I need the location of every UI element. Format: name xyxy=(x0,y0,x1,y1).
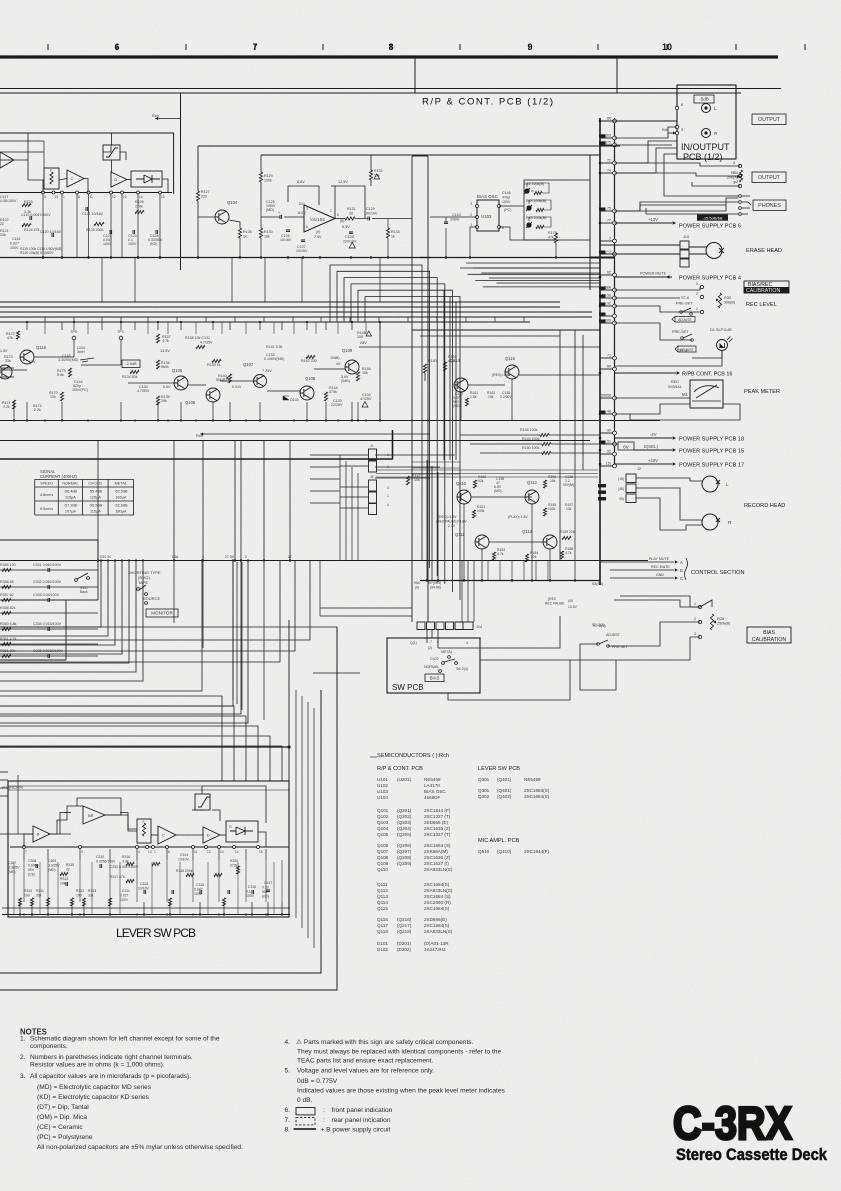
svg-text:R130: R130 xyxy=(264,230,273,234)
svg-text:R127: R127 xyxy=(201,190,210,194)
pin 5 xyxy=(675,125,678,128)
svg-text:(D)A01-13R: (D)A01-13R xyxy=(424,941,449,946)
svg-text:IN/OUTPUT: IN/OUTPUT xyxy=(681,142,730,152)
svg-text:Q114: Q114 xyxy=(377,900,388,905)
svg-text:52: 52 xyxy=(607,450,611,454)
wire +23V PS17 xyxy=(615,463,673,465)
capacitor C127 10/16V xyxy=(301,240,305,242)
wire from block to U102 xyxy=(198,145,620,147)
capacitor C119 0.0047/100V xyxy=(30,216,32,220)
svg-text:Q110: Q110 xyxy=(377,867,388,872)
svg-text:Q108: Q108 xyxy=(305,376,316,381)
diode box G lever xyxy=(226,821,258,842)
pin rail left block xyxy=(0,192,172,194)
svg-text:10/10V: 10/10V xyxy=(178,858,189,862)
svg-text:2: 2 xyxy=(609,237,611,241)
svg-text:0.0056: 0.0056 xyxy=(28,864,38,868)
svg-text:2SC1844 (F): 2SC1844 (F) xyxy=(424,808,451,813)
svg-text:(Q217): (Q217) xyxy=(397,923,412,928)
wire y673 right xyxy=(313,672,360,674)
svg-text:9/7(9R0): 9/7(9R0) xyxy=(428,581,441,585)
svg-text::: : xyxy=(323,1107,325,1114)
svg-text:BR: BR xyxy=(88,813,94,818)
junction dots rail 560 nest xyxy=(100,559,102,561)
svg-text:12.5V: 12.5V xyxy=(338,180,348,184)
svg-text:15k: 15k xyxy=(362,371,368,375)
svg-text:4: 4 xyxy=(387,503,389,507)
pin 3 xyxy=(675,131,678,134)
svg-text:TP1: TP1 xyxy=(117,330,124,334)
U103 cluster wires xyxy=(499,205,524,207)
svg-text:NORMAL: NORMAL xyxy=(424,665,439,669)
svg-text:2.2/50V: 2.2/50V xyxy=(500,395,512,399)
svg-text:Q302: Q302 xyxy=(478,794,490,799)
svg-text:Resistor values are in ohms (k: Resistor values are in ohms (k = 1,000 o… xyxy=(30,1062,165,1069)
svg-text:(Q402): (Q402) xyxy=(497,794,512,799)
svg-text:-57.2dB: -57.2dB xyxy=(64,504,78,508)
bus pin 66 xyxy=(600,120,613,122)
capacitor C124 0.33/50V xyxy=(156,230,158,234)
svg-text:F: F xyxy=(143,820,145,824)
bus pin 6289 xyxy=(600,322,613,324)
svg-text:R356 68: R356 68 xyxy=(0,580,14,584)
svg-text:71: 71 xyxy=(607,354,611,358)
svg-text:Q108: Q108 xyxy=(377,855,389,860)
svg-text:METAL: METAL xyxy=(441,650,453,654)
svg-text:220: 220 xyxy=(201,195,207,199)
svg-text:5: 5 xyxy=(306,225,308,229)
label MONITOR boxed xyxy=(146,609,178,617)
svg-text:2: 2 xyxy=(696,292,698,296)
svg-text:6: 6 xyxy=(337,213,339,217)
output jack R xyxy=(702,129,711,138)
lever bottom rail xyxy=(2,914,290,916)
svg-text:(DT) = Dip. Tantal: (DT) = Dip. Tantal xyxy=(37,1104,89,1111)
resistor R130 18k xyxy=(259,228,262,238)
svg-text:Q109: Q109 xyxy=(342,348,353,353)
resistor R125 200k xyxy=(94,222,104,225)
lever right border verticals xyxy=(288,620,290,781)
svg-text:R357 62: R357 62 xyxy=(0,593,14,597)
svg-text:R360 6.8k: R360 6.8k xyxy=(0,622,17,626)
resistor R131 39 xyxy=(345,217,355,220)
svg-text:½U102: ½U102 xyxy=(310,216,325,222)
svg-text:4558DF: 4558DF xyxy=(424,795,441,800)
rec level wires xyxy=(615,287,701,290)
bias cal wires xyxy=(608,622,700,646)
svg-text:53(54): 53(54) xyxy=(592,582,604,586)
svg-text:PRE-SET: PRE-SET xyxy=(672,330,689,334)
label -5dB xyxy=(694,95,714,103)
svg-text:0.01V: 0.01V xyxy=(232,385,242,389)
transistor at left edge xyxy=(0,365,12,379)
svg-text:18k: 18k xyxy=(264,235,270,239)
svg-text:27 D6: 27 D6 xyxy=(225,555,234,559)
double horizontal rail upper xyxy=(0,88,781,90)
svg-text:4: 4 xyxy=(138,850,140,854)
svg-text:0dB = 0.775V: 0dB = 0.775V xyxy=(297,1078,338,1085)
svg-text:D102: D102 xyxy=(377,947,388,952)
svg-text:100V(PC): 100V(PC) xyxy=(72,388,88,392)
svg-text:Q301: Q301 xyxy=(478,788,490,793)
svg-text:(94-9K): (94-9K) xyxy=(430,586,441,590)
svg-text:12V: 12V xyxy=(29,360,36,364)
svg-text:R129: R129 xyxy=(264,174,273,178)
svg-text:(Q410): (Q410) xyxy=(497,849,512,854)
svg-text:R139 1k: R139 1k xyxy=(207,363,221,367)
left edge wires into lever block xyxy=(0,771,8,773)
svg-text:+ B power supply circuit: + B power supply circuit xyxy=(321,1127,391,1134)
svg-text:107μA: 107μA xyxy=(65,510,77,514)
svg-text:NE5458: NE5458 xyxy=(424,777,441,782)
svg-text:(MD) = Electrolytic capacitor: (MD) = Electrolytic capacitor MD series xyxy=(37,1084,152,1091)
svg-text:⚠ Parts marked with this sign: ⚠ Parts marked with this sign are safety… xyxy=(296,1038,474,1046)
svg-text:33k: 33k xyxy=(5,359,11,363)
svg-text:C121 10/16V: C121 10/16V xyxy=(82,212,104,216)
svg-text:2SD666 (E): 2SD666 (E) xyxy=(424,820,448,825)
svg-text:1: 1 xyxy=(696,307,698,311)
svg-text:100V: 100V xyxy=(10,246,19,250)
svg-text:10k: 10k xyxy=(50,395,56,399)
output pin row xyxy=(738,164,741,167)
svg-text:2.3V: 2.3V xyxy=(448,524,456,528)
svg-text:9N0: 9N0 xyxy=(414,581,420,585)
capacitor C126 10/16V xyxy=(286,230,290,232)
svg-text:D21: D21 xyxy=(299,202,305,206)
svg-text:R358 82k: R358 82k xyxy=(0,606,16,610)
svg-text:R/PB CONT. PCB 16: R/PB CONT. PCB 16 xyxy=(682,372,732,378)
svg-text:Q109: Q109 xyxy=(377,861,389,866)
svg-text:U103: U103 xyxy=(481,214,492,219)
svg-text:Voltage and level values are f: Voltage and level values are for referen… xyxy=(297,1068,434,1075)
svg-text:R141 3.9k: R141 3.9k xyxy=(266,345,283,349)
svg-text:2SC1637 (I): 2SC1637 (I) xyxy=(424,861,449,866)
R/P left border wire xyxy=(414,58,416,93)
svg-text:14: 14 xyxy=(235,850,239,854)
potentiometer R30 50k(B) xyxy=(718,293,721,308)
left edge stubs mid xyxy=(0,367,14,369)
svg-text:OUTPUT: OUTPUT xyxy=(758,175,781,181)
svg-text:GND: GND xyxy=(656,573,664,577)
svg-text:Q115: Q115 xyxy=(377,906,388,911)
svg-text:3: 3 xyxy=(696,282,698,286)
bus pin 52 xyxy=(600,453,613,455)
switch S301 xyxy=(75,579,78,582)
wire -2V PS18 xyxy=(615,437,673,439)
svg-text:-56.5dB: -56.5dB xyxy=(89,504,103,508)
svg-text:10k: 10k xyxy=(566,507,572,511)
svg-text:REC PAUSE: REC PAUSE xyxy=(545,602,565,606)
rec level pins xyxy=(700,285,703,288)
svg-text:3: 3 xyxy=(81,850,83,854)
svg-text:C332 0.062/100V: C332 0.062/100V xyxy=(33,580,62,584)
wires sw pcb region verticals xyxy=(461,560,463,622)
svg-text:J2: J2 xyxy=(637,467,641,471)
transistor row extra stubs xyxy=(44,322,46,334)
svg-text:0.027: 0.027 xyxy=(120,894,129,898)
svg-text:C: C xyxy=(162,833,165,838)
wire bundle bottom lever to right xyxy=(295,690,297,918)
svg-text:2: 2 xyxy=(330,209,332,213)
lever top wires xyxy=(8,785,202,787)
verticals upper mid to transistor rail xyxy=(101,258,103,302)
svg-text:POWER SUPPLY PCB 6: POWER SUPPLY PCB 6 xyxy=(679,224,741,230)
svg-text:100: 100 xyxy=(357,335,363,339)
svg-text:They must always be replace: They must always be replaced with identi… xyxy=(297,1049,501,1056)
svg-text:TP5: TP5 xyxy=(70,330,77,334)
R/P PCB right border wire xyxy=(616,58,618,93)
svg-text:-56.4dB: -56.4dB xyxy=(64,490,78,494)
bottom-left outer nest lines xyxy=(0,561,310,641)
svg-text:2SD666(E): 2SD666(E) xyxy=(424,917,447,922)
U102 feedback upper xyxy=(288,186,319,205)
svg-text:ADJUST: ADJUST xyxy=(678,318,693,322)
svg-text:D101: D101 xyxy=(377,941,388,946)
svg-text:47k: 47k xyxy=(7,336,13,340)
svg-text:R134 82k: R134 82k xyxy=(122,375,138,379)
svg-text:(Q205): (Q205) xyxy=(397,832,412,837)
svg-text:4.: 4. xyxy=(285,1039,291,1046)
svg-text:2SC1636 (Z): 2SC1636 (Z) xyxy=(424,826,451,831)
svg-text:components.: components. xyxy=(30,1043,68,1050)
svg-text:1/50V: 1/50V xyxy=(450,218,460,222)
ruler tick marks xyxy=(47,44,49,50)
svg-text:6: 6 xyxy=(502,226,504,230)
svg-text:1.5k: 1.5k xyxy=(470,395,477,399)
svg-text:115μA: 115μA xyxy=(65,496,76,500)
vertical bus line left xyxy=(599,118,601,585)
svg-text:A: A xyxy=(680,560,683,565)
svg-text:39: 39 xyxy=(349,212,353,216)
svg-text:77: 77 xyxy=(607,219,611,223)
verticals between rail420 and rail560 xyxy=(97,441,99,561)
op-amp U102 xyxy=(304,205,335,232)
svg-text:Q103: Q103 xyxy=(377,820,389,825)
svg-text:2SA933LN(S): 2SA933LN(S) xyxy=(424,929,453,934)
svg-text:1k: 1k xyxy=(391,235,395,239)
junction dots rail xyxy=(197,256,199,258)
svg-text:4.7/50V: 4.7/50V xyxy=(137,389,150,393)
svg-text:(D201): (D201) xyxy=(397,941,412,946)
svg-text:-5dB: -5dB xyxy=(699,97,709,102)
svg-text:0.027: 0.027 xyxy=(10,242,19,246)
svg-text:22: 22 xyxy=(0,222,4,226)
svg-text:560k: 560k xyxy=(161,365,169,369)
svg-text:13.5V: 13.5V xyxy=(160,349,170,353)
svg-text:0.1: 0.1 xyxy=(246,890,251,894)
svg-text:Q102: Q102 xyxy=(377,814,389,819)
svg-text:2SC1684(S): 2SC1684(S) xyxy=(424,923,450,928)
wires feeding record head region xyxy=(574,330,576,470)
svg-text:2.: 2. xyxy=(20,1054,26,1061)
svg-text:100k: 100k xyxy=(264,179,272,183)
svg-text:(MD): (MD) xyxy=(453,404,461,408)
wires transistor row horizontal xyxy=(0,369,27,371)
svg-text:3: 3 xyxy=(387,486,389,490)
svg-text:Q101: Q101 xyxy=(377,808,389,813)
op-amp C xyxy=(67,170,84,187)
junction dots bus xyxy=(599,120,602,123)
diode D102 xyxy=(283,396,289,400)
svg-text:-15.5dB/6B: -15.5dB/6B xyxy=(702,216,722,221)
svg-text:Q118: Q118 xyxy=(377,929,388,934)
svg-text:2SK68A(M): 2SK68A(M) xyxy=(424,849,448,854)
svg-text:C129: C129 xyxy=(366,207,375,211)
svg-text:R355 120: R355 120 xyxy=(0,563,16,567)
drops from y300 lines to rail322 xyxy=(44,317,46,322)
svg-text:50V(M): 50V(M) xyxy=(563,483,574,487)
rail y440 xyxy=(0,440,590,442)
svg-text:POWER SUPPLY PCB 15: POWER SUPPLY PCB 15 xyxy=(679,449,744,455)
svg-text:(CE) = Ceramic: (CE) = Ceramic xyxy=(37,1124,83,1131)
svg-text:5.: 5. xyxy=(285,1068,291,1075)
svg-text:CURRENT (400HZ): CURRENT (400HZ) xyxy=(40,474,78,479)
svg-text:ADJUST: ADJUST xyxy=(606,633,621,637)
row 420 extra dots xyxy=(44,420,46,422)
U103 box outline wires xyxy=(524,180,590,240)
svg-text:SW PCB: SW PCB xyxy=(392,683,424,692)
long vertical pair mid xyxy=(411,265,413,622)
label OUTPUT boxed 2 xyxy=(752,172,786,183)
resistor R128 1k xyxy=(238,228,241,238)
svg-text:C310: C310 xyxy=(96,855,104,859)
svg-text:-55.4dB: -55.4dB xyxy=(89,490,103,494)
svg-text:10/16V: 10/16V xyxy=(280,238,292,242)
svg-text:U103: U103 xyxy=(377,789,388,794)
svg-text:(PC) = Polystyrene: (PC) = Polystyrene xyxy=(37,1134,93,1141)
svg-text:R315: R315 xyxy=(66,863,74,867)
wire R/PB CONT PCB 16 xyxy=(615,372,677,374)
extra verticals under cluster xyxy=(487,560,489,581)
svg-text:BIAS OSC: BIAS OSC xyxy=(424,789,446,794)
svg-text:REC MUTE: REC MUTE xyxy=(651,565,670,569)
svg-text:5.6k: 5.6k xyxy=(57,373,64,377)
bias cal pins xyxy=(698,605,701,608)
op-amp B lever xyxy=(33,826,50,842)
svg-text:rear panel incication: rear panel incication xyxy=(332,1117,391,1124)
svg-text:15: 15 xyxy=(161,195,165,199)
capacitor C128 220/16V xyxy=(349,232,353,234)
wires erase head xyxy=(600,244,680,246)
svg-text:R131: R131 xyxy=(347,207,356,211)
svg-text:Q113: Q113 xyxy=(522,529,533,534)
svg-text:J10: J10 xyxy=(683,235,689,239)
pin rail lever xyxy=(10,846,289,848)
svg-text:3mH: 3mH xyxy=(77,350,85,354)
svg-text:2.2k: 2.2k xyxy=(3,405,10,409)
svg-text:BIAS OSC: BIAS OSC xyxy=(477,194,498,199)
svg-text:OUTPUT: OUTPUT xyxy=(758,117,781,123)
svg-text:115μA: 115μA xyxy=(90,510,101,514)
svg-text:47k: 47k xyxy=(548,236,554,240)
svg-text:S6-2(4): S6-2(4) xyxy=(456,667,468,671)
lever verticals top xyxy=(23,849,25,860)
svg-text:1k: 1k xyxy=(243,235,247,239)
svg-text:J14: J14 xyxy=(476,625,482,629)
resistor R124 47k xyxy=(22,223,31,226)
svg-text:4: 4 xyxy=(44,195,46,199)
svg-text:59058: 59058 xyxy=(601,394,611,398)
svg-text:470p: 470p xyxy=(502,196,510,200)
svg-text:10/16V: 10/16V xyxy=(138,887,149,891)
svg-text:270k: 270k xyxy=(135,205,143,209)
svg-text:(Q203): (Q203) xyxy=(397,820,412,825)
horizontal wires into connector strip xyxy=(310,454,340,456)
svg-text:D36: D36 xyxy=(172,555,178,559)
svg-text:2SC1684 (S): 2SC1684 (S) xyxy=(424,894,451,899)
svg-text:1S2473HJ: 1S2473HJ xyxy=(424,947,445,952)
svg-text:D: D xyxy=(207,833,210,838)
svg-text:3: 3 xyxy=(733,161,735,165)
resistor R34 20k(A) x2 xyxy=(739,170,742,182)
svg-text:NE5458: NE5458 xyxy=(524,777,541,782)
svg-text:R133: R133 xyxy=(391,230,400,234)
svg-text:2SC1844(F): 2SC1844(F) xyxy=(524,849,549,854)
svg-text:4V: 4V xyxy=(336,362,341,366)
resistor R129 100k xyxy=(259,172,262,182)
svg-text:Stereo Cassette Deck: Stereo Cassette Deck xyxy=(676,1146,828,1164)
wires output2 xyxy=(615,163,741,166)
svg-text:7.: 7. xyxy=(285,1117,291,1124)
label 0V boxed xyxy=(618,442,634,450)
record head wires xyxy=(636,478,703,481)
svg-text:R150 100k: R150 100k xyxy=(522,446,540,450)
bus pin 46 xyxy=(600,413,613,415)
svg-text:(15): (15) xyxy=(618,477,624,481)
nested bus wires mid xyxy=(330,265,422,560)
svg-text:75: 75 xyxy=(607,207,611,211)
limiter box xyxy=(103,145,120,160)
svg-text:Cr/CrO2: Cr/CrO2 xyxy=(88,482,102,486)
svg-text:R178: R178 xyxy=(548,231,557,235)
svg-text:8.: 8. xyxy=(285,1127,291,1134)
svg-text:TEAC parts list and ensure ex: TEAC parts list and ensure exact replace… xyxy=(297,1058,434,1065)
svg-text:-62.5dB: -62.5dB xyxy=(114,490,128,494)
svg-text:1: 1 xyxy=(387,494,389,498)
svg-text:R120 10k(B) 0.33/50V: R120 10k(B) 0.33/50V xyxy=(20,251,54,255)
svg-text:RECORD HEAD: RECORD HEAD xyxy=(744,503,785,509)
svg-text:POWER SUPPLY PCB 17: POWER SUPPLY PCB 17 xyxy=(679,463,744,469)
capacitor C120 10/16V xyxy=(52,233,54,237)
bottom rail left xyxy=(0,257,430,259)
svg-text:(Q208): (Q208) xyxy=(397,855,412,860)
lever extra resistors xyxy=(46,898,49,906)
bus pin 90 xyxy=(600,432,613,434)
filter box F xyxy=(44,168,59,189)
svg-text:+23V: +23V xyxy=(648,458,658,463)
svg-text:-52.6dB: -52.6dB xyxy=(114,504,128,508)
svg-text:(0dB): (0dB) xyxy=(341,379,350,383)
svg-text:2SC1636 (Z): 2SC1636 (Z) xyxy=(424,855,451,860)
svg-text:Q116: Q116 xyxy=(377,917,388,922)
resistor R123 3.3k xyxy=(22,203,31,206)
svg-text:8.8V: 8.8V xyxy=(297,180,305,184)
bus pin 60 xyxy=(600,368,613,370)
svg-text:15: 15 xyxy=(259,850,263,854)
svg-text:10k: 10k xyxy=(414,478,420,482)
svg-text:2SC1684(S): 2SC1684(S) xyxy=(524,788,550,793)
svg-text:Back: Back xyxy=(80,590,88,594)
verticals right of table xyxy=(339,455,341,560)
svg-text:NORMAL: NORMAL xyxy=(62,482,78,486)
svg-text:E(SIG.): E(SIG.) xyxy=(644,444,659,449)
label ADJUST boxed xyxy=(672,317,695,323)
svg-text:CrO2: CrO2 xyxy=(430,657,439,661)
svg-text:C119 0.0047/100V: C119 0.0047/100V xyxy=(21,213,51,217)
svg-text:C307: C307 xyxy=(8,861,16,865)
svg-text:(REC)=3.3V: (REC)=3.3V xyxy=(438,515,457,519)
svg-text:4.7k: 4.7k xyxy=(162,339,169,343)
